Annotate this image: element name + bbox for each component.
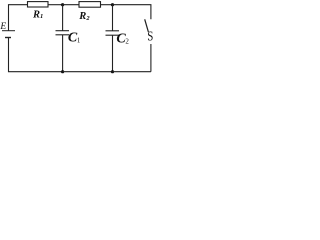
battery E short plate — [5, 37, 11, 39]
svg-text:S: S — [147, 28, 153, 44]
background — [0, 0, 155, 78]
bottom wire C1 to C2 — [63, 71, 113, 73]
wire battery to bottom-left corner — [9, 38, 63, 72]
wire C1 to bottom wire — [62, 35, 64, 72]
bottom wire C2 to bottom-right corner — [113, 71, 151, 73]
switch S blade — [145, 19, 149, 32]
wire node A to R2 — [63, 4, 79, 6]
capacitor C1 top plate — [56, 30, 70, 32]
wire node B to top-right corner and down to switch — [113, 5, 151, 20]
node A junction dot — [61, 3, 64, 6]
wire node B down to C2 — [112, 5, 114, 31]
junction dot bottom of C2 — [111, 70, 114, 73]
wire switch to bottom-right corner — [150, 44, 152, 72]
wire C2 to bottom wire — [112, 35, 114, 71]
resistor R2 — [79, 2, 101, 8]
resistor R1 — [28, 2, 49, 7]
wire node A down to C1 — [62, 5, 64, 31]
junction dot bottom of C1 — [61, 70, 64, 73]
battery E long plate — [2, 30, 15, 32]
capacitor C2 top plate — [106, 30, 120, 32]
wire R2 to node B — [101, 4, 113, 6]
wire R1 to node A — [48, 4, 63, 6]
capacitor C2 bottom plate — [106, 34, 120, 36]
capacitor C1 bottom plate — [56, 34, 70, 36]
wire top-left segment — [9, 5, 28, 31]
node B junction dot — [111, 3, 114, 6]
